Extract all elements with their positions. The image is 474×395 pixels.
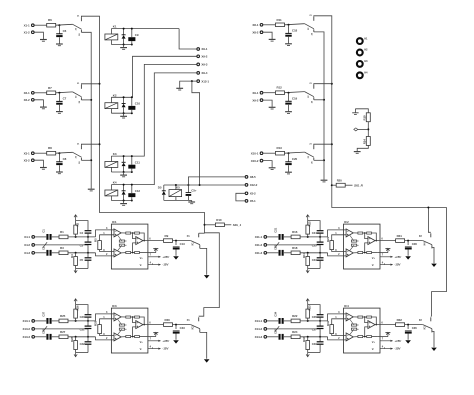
svg-text:C29: C29 — [312, 342, 317, 346]
svg-text:R34: R34 — [326, 320, 330, 325]
connector pin X13-3 — [32, 336, 35, 339]
ground under C33 — [173, 340, 179, 343]
wire — [300, 252, 328, 254]
wire — [87, 329, 89, 341]
svg-text:C20: C20 — [292, 157, 298, 161]
svg-text:C1: C1 — [42, 229, 46, 233]
wire — [405, 324, 423, 326]
svg-text:C9: C9 — [135, 33, 139, 37]
svg-text:IC2: IC2 — [344, 220, 349, 224]
resistor R31 — [396, 239, 405, 243]
wire bus inner right — [314, 32, 324, 180]
connector pin X5-1 — [245, 200, 248, 203]
wire output — [143, 324, 163, 326]
wire — [87, 318, 89, 326]
wire — [263, 161, 272, 168]
svg-text:X8-5: X8-5 — [250, 175, 256, 179]
wire — [175, 325, 177, 329]
capacitor C11 — [128, 165, 135, 169]
wire — [263, 32, 272, 39]
wire — [358, 128, 369, 130]
svg-text:X8-1: X8-1 — [252, 23, 258, 27]
capacitor C19 — [285, 100, 291, 102]
svg-text:C35: C35 — [274, 329, 278, 334]
wire — [345, 184, 352, 186]
polarity slash — [43, 242, 47, 248]
feedback resistor — [351, 324, 356, 326]
resistor R10 — [215, 223, 224, 227]
wire — [285, 24, 305, 25]
wire — [267, 252, 279, 254]
node junction — [331, 143, 333, 145]
wire V+ — [148, 340, 161, 342]
wire — [75, 350, 77, 353]
wire — [75, 219, 77, 221]
wire — [350, 245, 354, 251]
wire — [267, 244, 320, 246]
node junction — [99, 143, 101, 145]
wire from K3 rail to X9-3 — [111, 64, 196, 156]
node junction — [319, 320, 321, 322]
svg-text:C36: C36 — [412, 326, 417, 330]
ground under C8 — [56, 171, 63, 173]
wire — [307, 337, 309, 341]
wire — [365, 317, 368, 323]
relay coil K4 — [105, 190, 118, 196]
ground under contact D — [431, 348, 437, 351]
svg-text:SIG_1: SIG_1 — [233, 223, 242, 227]
wire — [200, 332, 207, 358]
relay contact K3 — [305, 152, 314, 157]
connector pin X13-2 — [32, 328, 35, 331]
node junction — [75, 336, 77, 338]
svg-text:C21: C21 — [274, 227, 278, 232]
wire — [110, 109, 112, 114]
svg-text:D5: D5 — [158, 186, 162, 190]
wire — [139, 233, 144, 241]
capacitor C1 — [46, 234, 48, 240]
wire — [357, 240, 359, 242]
wire V+ — [380, 340, 393, 342]
svg-text:R23: R23 — [307, 305, 311, 310]
wire — [307, 266, 309, 269]
svg-text:X1-1: X1-1 — [24, 23, 30, 27]
resistor R24 — [291, 335, 300, 339]
wire — [332, 319, 346, 325]
diode of K2 — [123, 97, 125, 103]
wire — [284, 336, 291, 338]
wire — [407, 250, 409, 256]
ground under C13 — [173, 256, 179, 259]
wire — [121, 252, 126, 254]
wire — [307, 350, 309, 353]
connector pin X5-2 — [245, 192, 248, 195]
capacitor C24 — [317, 230, 324, 231]
node junction — [90, 159, 92, 161]
svg-text:+15V: +15V — [162, 339, 170, 343]
connector pin X2-1 — [32, 92, 35, 95]
feedback resistor — [126, 316, 131, 318]
svg-text:C10: C10 — [135, 102, 141, 106]
relay coil K2 — [105, 103, 118, 109]
wire — [96, 314, 115, 321]
resistor R9 — [164, 239, 173, 243]
node junction — [319, 336, 321, 338]
ground under C28 — [405, 256, 411, 259]
svg-text:C8: C8 — [63, 157, 67, 161]
capacitor C8 — [56, 161, 62, 163]
connector pin X14-1 — [264, 320, 267, 323]
wire — [224, 224, 231, 226]
svg-text:X12-1: X12-1 — [201, 79, 209, 83]
wire — [353, 232, 358, 234]
wire — [96, 253, 115, 256]
svg-text:R33: R33 — [302, 336, 306, 341]
wire — [175, 250, 177, 256]
svg-text:+15V: +15V — [394, 255, 402, 259]
wire — [307, 234, 309, 237]
connector pin X12-1 — [197, 80, 200, 83]
wire — [263, 152, 276, 154]
wire — [68, 320, 96, 322]
wire — [58, 153, 60, 161]
wire — [284, 252, 291, 254]
capacitor C25 — [317, 242, 324, 243]
wire bottom rail — [76, 268, 88, 270]
wire — [350, 329, 354, 335]
wire bottom rail — [111, 200, 131, 202]
wire V- — [380, 264, 393, 266]
wire — [357, 244, 359, 246]
capacitor C10 — [128, 106, 135, 110]
tap point — [354, 128, 358, 131]
wire — [52, 236, 59, 238]
wire — [87, 234, 89, 242]
svg-text:+15V: +15V — [162, 255, 170, 259]
wire bus outer left — [81, 16, 204, 233]
wire — [56, 23, 73, 26]
svg-text:R8: R8 — [48, 146, 52, 150]
reference ground tap — [386, 248, 389, 252]
pin tick — [384, 347, 386, 348]
op-amp C of IC4 — [368, 321, 375, 329]
wire — [75, 337, 77, 341]
wire — [58, 165, 60, 171]
wire — [372, 233, 377, 241]
resistor R4 — [74, 257, 78, 266]
ground right inner bus — [321, 179, 328, 181]
supply arrow down — [306, 353, 309, 357]
wire — [175, 185, 177, 190]
resistor R13 — [276, 151, 285, 155]
capacitor C3 — [85, 242, 92, 243]
svg-text:K1: K1 — [113, 25, 117, 29]
svg-text:X10-1: X10-1 — [251, 151, 259, 155]
svg-text:X9-2: X9-2 — [252, 98, 258, 102]
svg-text:+15V: +15V — [394, 339, 402, 343]
wire — [81, 144, 99, 145]
supply arrow down — [74, 269, 77, 273]
capacitor C6 — [56, 33, 62, 35]
svg-text:X12-2: X12-2 — [250, 183, 258, 187]
svg-text:X9-1: X9-1 — [201, 47, 207, 51]
feedback resistor — [351, 244, 356, 246]
svg-text:C34: C34 — [274, 311, 278, 316]
wire — [328, 314, 347, 321]
supply arrow up — [74, 299, 77, 303]
wire — [110, 196, 112, 201]
ground of K5 — [188, 201, 195, 203]
connector pin X10-2 — [260, 159, 263, 162]
wire — [363, 252, 367, 254]
wire top rail — [76, 305, 88, 315]
svg-text:X11-1: X11-1 — [255, 235, 263, 239]
capacitor C22 — [279, 250, 281, 256]
ground X3-2 — [40, 167, 47, 169]
svg-text:R16: R16 — [292, 230, 298, 234]
svg-text:R4: R4 — [70, 254, 74, 258]
wire — [367, 122, 369, 137]
resistor R16 — [291, 235, 300, 239]
ground under C20 — [285, 171, 292, 173]
wire — [34, 160, 43, 167]
connector pin X9-1 — [260, 91, 263, 94]
node junction — [407, 240, 409, 242]
capacitor C23 — [317, 257, 324, 258]
capacitor C13 — [173, 247, 180, 248]
wire — [307, 219, 309, 221]
wire — [284, 320, 291, 322]
feedback resistor — [358, 252, 363, 254]
svg-text:R19: R19 — [363, 115, 367, 120]
wire from K2 rail to X9-2 — [111, 56, 196, 97]
wire — [314, 99, 324, 101]
wire — [34, 100, 43, 107]
ground at X12-1 — [176, 87, 183, 89]
wire top rail K5 — [164, 184, 200, 186]
svg-text:R2: R2 — [75, 222, 79, 226]
node junction — [319, 252, 321, 254]
wire X8-5 — [188, 177, 245, 185]
relay contact K1 — [73, 24, 82, 29]
svg-text:R24: R24 — [292, 330, 298, 334]
svg-text:K5: K5 — [176, 186, 180, 190]
wire — [34, 92, 47, 94]
wire — [263, 100, 272, 107]
wire — [372, 317, 377, 325]
instrumentation amplifier IC2 — [344, 224, 381, 269]
wire — [87, 345, 89, 353]
svg-text:C22: C22 — [274, 245, 278, 250]
wire — [407, 325, 409, 329]
wire — [432, 331, 434, 347]
connector pin X11-2 — [264, 244, 267, 247]
polarity slash — [43, 326, 47, 332]
wire — [121, 232, 126, 234]
svg-text:R10: R10 — [216, 218, 222, 222]
wire — [81, 99, 91, 101]
feedback resistor — [367, 316, 372, 318]
connector pin X10-1 — [260, 152, 263, 155]
wire — [300, 320, 328, 322]
resistor R14 — [366, 137, 370, 146]
wire — [131, 252, 135, 254]
wire — [365, 233, 368, 239]
ground of K3 — [120, 174, 127, 176]
resistor R6 — [47, 23, 56, 27]
op-amp A of IC2 — [346, 229, 353, 237]
wire — [131, 41, 133, 44]
wire — [125, 240, 127, 242]
svg-text:V-: V- — [372, 263, 374, 267]
connector pin X8-2 — [260, 31, 263, 34]
tap bar — [153, 332, 158, 334]
wire — [357, 324, 359, 326]
svg-text:X13-1: X13-1 — [22, 319, 30, 323]
svg-text:K2: K2 — [113, 93, 117, 97]
feedback resistor — [351, 240, 356, 242]
wire — [355, 109, 368, 113]
wire — [314, 144, 332, 145]
wire — [131, 29, 133, 37]
svg-text:C28: C28 — [412, 242, 417, 246]
capacitor C29 — [317, 341, 324, 342]
resistor R34 — [330, 325, 334, 334]
wire — [307, 303, 309, 305]
wire — [200, 248, 207, 274]
feedback resistor — [119, 324, 124, 326]
resistor R11 — [276, 23, 285, 27]
svg-text:R11: R11 — [277, 18, 282, 22]
wire — [328, 253, 347, 256]
wire — [175, 241, 177, 245]
wire — [118, 329, 122, 335]
capacitor C5 — [187, 185, 189, 192]
svg-text:R22: R22 — [292, 314, 298, 318]
feedback resistor — [135, 336, 140, 338]
svg-text:C19: C19 — [292, 96, 298, 100]
ground under C36 — [405, 340, 411, 343]
node junction — [191, 80, 193, 82]
feedback resistor — [367, 252, 372, 254]
svg-text:V-: V- — [140, 263, 142, 267]
wire — [319, 318, 321, 326]
svg-text:C2: C2 — [42, 246, 46, 250]
wire bottom rail — [76, 352, 88, 354]
op-amp B of IC2 — [346, 249, 353, 257]
wire — [133, 243, 136, 253]
ground left bus — [88, 188, 95, 190]
svg-text:R26: R26 — [75, 305, 79, 310]
supply arrow down — [306, 269, 309, 273]
svg-text:C38: C38 — [42, 329, 46, 334]
resistor R17 — [306, 257, 310, 266]
LED H2 — [357, 50, 363, 56]
node junction — [323, 159, 325, 161]
op-amp C of IC1 — [136, 237, 143, 245]
capacitor C33 — [173, 331, 180, 332]
resistor R29 — [98, 325, 102, 334]
feedback resistor — [119, 328, 124, 330]
svg-text:C11: C11 — [135, 160, 140, 164]
wire — [314, 84, 332, 85]
connector pin X9-3 — [197, 63, 200, 66]
node junction — [307, 236, 309, 238]
feedback resistor — [367, 336, 372, 338]
wire — [175, 334, 177, 340]
ground X8-2 — [269, 38, 276, 40]
wire — [68, 252, 96, 254]
wire — [363, 336, 367, 338]
wire — [52, 336, 59, 338]
wire — [75, 253, 77, 257]
wire — [205, 224, 216, 226]
resistor R1 — [59, 235, 68, 239]
wire — [187, 196, 189, 201]
resistor R30 — [164, 323, 173, 327]
op-amp C of IC2 — [368, 237, 375, 245]
wire — [365, 243, 368, 253]
svg-text:X11-2: X11-2 — [255, 243, 263, 247]
wire — [133, 327, 136, 337]
wire — [100, 334, 114, 336]
wire — [332, 334, 346, 336]
svg-text:X3-2: X3-2 — [24, 158, 30, 162]
wire — [110, 167, 112, 172]
resistor R12 — [276, 91, 285, 95]
wire bus outer right — [314, 16, 447, 317]
node junction — [307, 336, 309, 338]
relay contact K2 — [73, 92, 82, 97]
relay contact K3 — [423, 325, 432, 329]
connector pin X12-2 — [245, 184, 248, 187]
wire — [267, 328, 320, 330]
wire from K4 rail to X9-4 — [111, 73, 196, 185]
svg-text:R28: R28 — [70, 336, 74, 341]
svg-text:C6: C6 — [63, 29, 67, 33]
node junction — [331, 83, 333, 85]
wire — [75, 305, 77, 310]
wire bottom rail — [111, 171, 131, 173]
capacitor C20 — [285, 161, 291, 163]
svg-text:K4: K4 — [113, 181, 117, 185]
connector pin X11-1 — [264, 236, 267, 239]
wire — [139, 336, 145, 338]
capacitor C28 — [405, 247, 412, 248]
LED H4 — [357, 72, 363, 78]
wire — [118, 245, 122, 251]
resistor R19 — [366, 113, 370, 122]
wire — [314, 159, 324, 161]
connector pin X14-3 — [264, 336, 267, 339]
feedback resistor — [135, 232, 140, 234]
connector pin X1-2 — [32, 31, 35, 34]
wire — [267, 320, 279, 322]
connector pin X4-2 — [32, 244, 35, 247]
svg-text:X11-3: X11-3 — [255, 251, 263, 255]
ground of K2 — [120, 115, 127, 117]
wire ref — [145, 336, 156, 338]
wire V+ — [148, 256, 161, 258]
svg-text:R31: R31 — [397, 234, 403, 238]
wire ref — [377, 252, 388, 254]
wire — [58, 37, 60, 43]
svg-text:IC4: IC4 — [344, 304, 349, 308]
node junction — [87, 236, 89, 238]
svg-text:R32: R32 — [397, 318, 403, 322]
feedback resistor — [351, 328, 356, 330]
svg-text:C18: C18 — [292, 28, 298, 32]
